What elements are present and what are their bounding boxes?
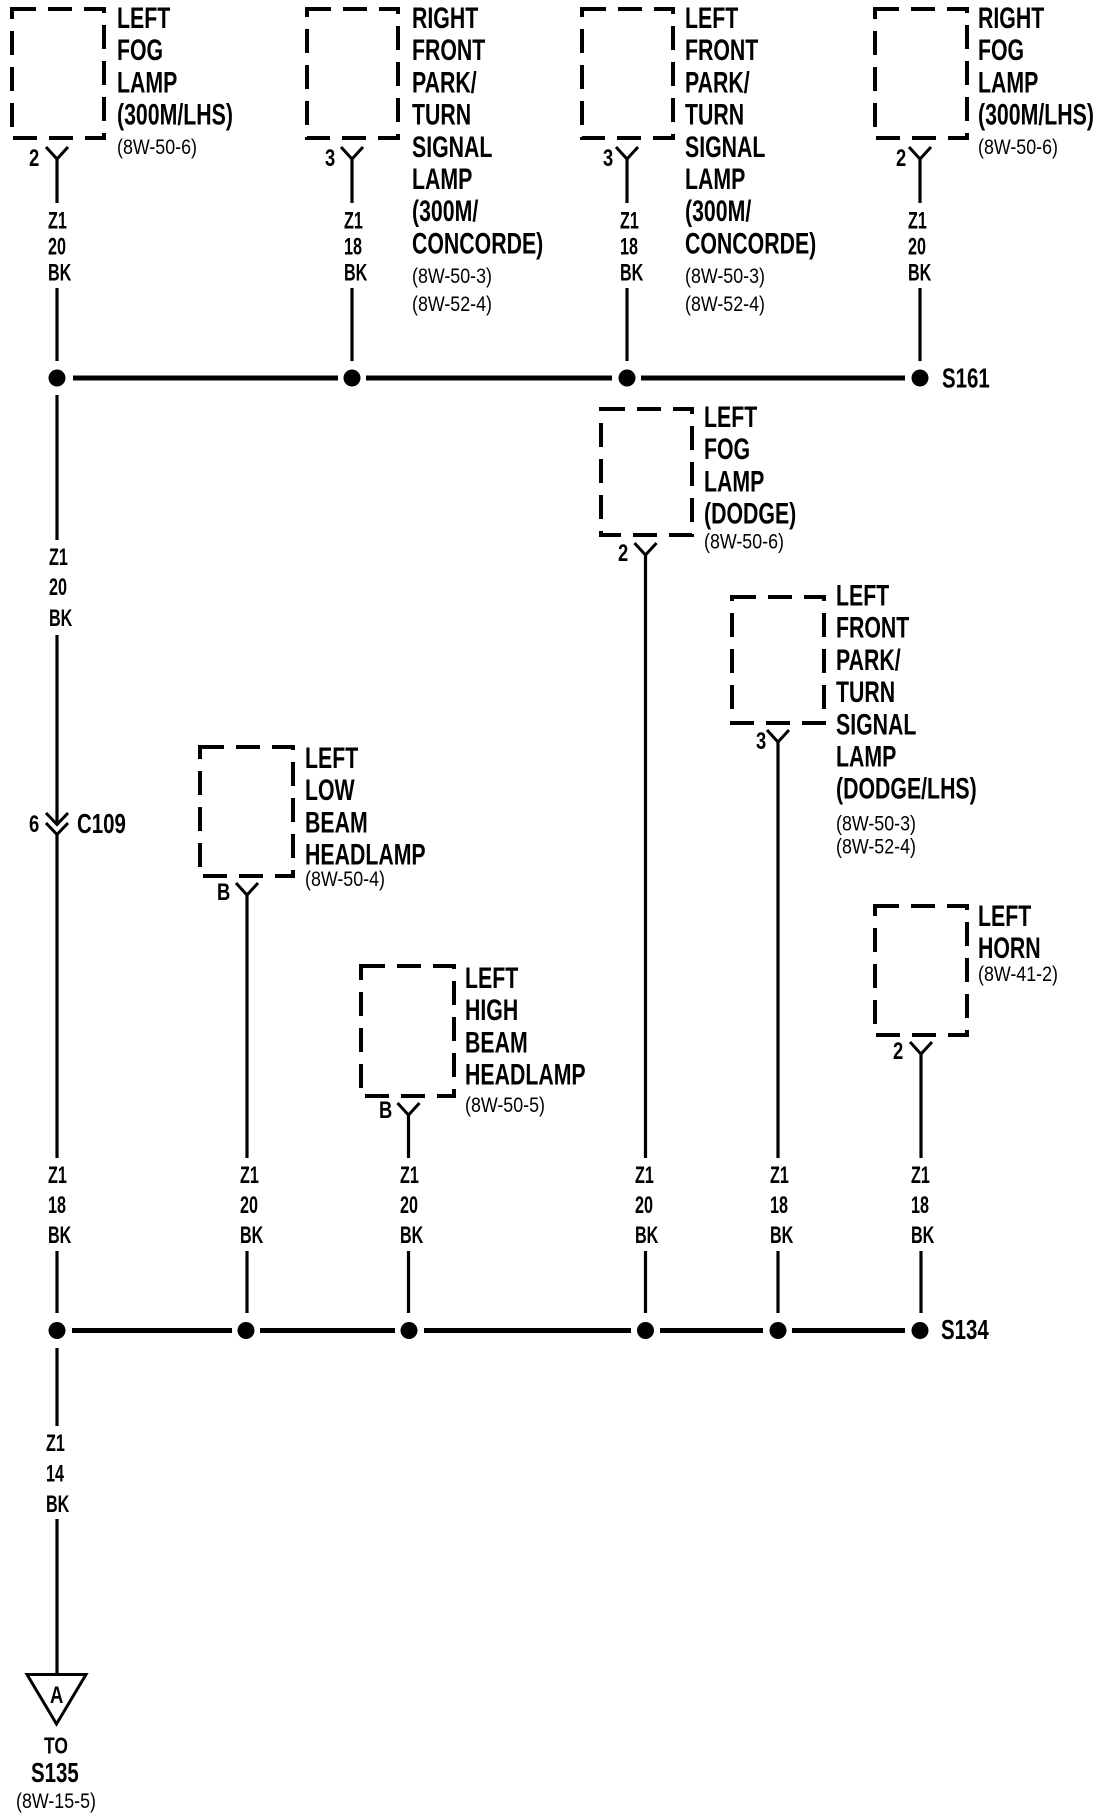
svg-text:BK: BK xyxy=(46,1491,69,1518)
svg-text:3: 3 xyxy=(325,143,335,171)
svg-text:(8W-52-4): (8W-52-4) xyxy=(836,835,916,859)
wire from S134 down xyxy=(55,1348,58,1426)
svg-text:(DODGE): (DODGE) xyxy=(704,496,796,531)
svg-text:BK: BK xyxy=(770,1222,793,1249)
svg-text:C109: C109 xyxy=(77,809,126,840)
svg-text:(8W-52-4): (8W-52-4) xyxy=(412,293,492,317)
svg-text:Z1: Z1 xyxy=(46,1430,65,1457)
svg-text:(300M/: (300M/ xyxy=(412,194,478,229)
svg-text:HEADLAMP: HEADLAMP xyxy=(465,1057,586,1092)
svg-text:20: 20 xyxy=(48,233,66,260)
svg-text:14: 14 xyxy=(46,1460,64,1487)
svg-text:B: B xyxy=(379,1095,392,1123)
junction at S134, high beam wire xyxy=(401,1322,418,1339)
svg-text:BK: BK xyxy=(400,1222,423,1249)
wire from left fog lamp (Dodge) xyxy=(644,555,647,1158)
svg-text:BK: BK xyxy=(908,259,931,286)
connector box: LEFT FOG LAMP (300M/LHS) xyxy=(12,9,104,138)
svg-text:18: 18 xyxy=(620,233,638,260)
junction at S161, wire 2 xyxy=(344,370,361,387)
svg-text:(8W-50-3): (8W-50-3) xyxy=(412,265,492,289)
wire to S161 xyxy=(55,288,58,361)
svg-text:18: 18 xyxy=(48,1192,66,1219)
svg-text:LEFT: LEFT xyxy=(978,898,1031,933)
wire from S161 down xyxy=(55,395,58,540)
svg-text:BK: BK xyxy=(344,259,367,286)
svg-text:3: 3 xyxy=(603,143,613,171)
wire to S161 xyxy=(625,288,628,361)
connector branch, left front park/turn lamp (300M) xyxy=(616,147,638,159)
svg-text:18: 18 xyxy=(344,233,362,260)
svg-text:Z1: Z1 xyxy=(908,207,927,234)
wire to S161 xyxy=(918,288,921,361)
svg-text:Z1: Z1 xyxy=(344,207,363,234)
svg-text:Z1: Z1 xyxy=(48,207,67,234)
svg-text:Z1: Z1 xyxy=(49,544,68,571)
junction at S134, low beam wire xyxy=(238,1322,255,1339)
connector branch, left fog lamp xyxy=(46,147,68,159)
junction at S161, wire 1 xyxy=(49,370,66,387)
svg-text:TO: TO xyxy=(44,1734,68,1759)
svg-text:Z1: Z1 xyxy=(770,1162,789,1189)
svg-text:(300M/: (300M/ xyxy=(685,194,751,229)
svg-text:A: A xyxy=(50,1680,64,1708)
svg-text:BK: BK xyxy=(911,1222,934,1249)
wire to S134 xyxy=(407,1251,410,1313)
svg-text:LOW: LOW xyxy=(305,773,355,808)
svg-text:TURN: TURN xyxy=(836,674,895,709)
connector box: LEFT HORN xyxy=(875,906,967,1035)
connector branch, right fog lamp xyxy=(909,147,931,159)
svg-text:LEFT: LEFT xyxy=(117,0,170,35)
svg-text:18: 18 xyxy=(770,1192,788,1219)
svg-text:(8W-41-2): (8W-41-2) xyxy=(978,963,1058,987)
svg-text:LAMP: LAMP xyxy=(704,464,764,499)
svg-text:LAMP: LAMP xyxy=(117,65,177,100)
svg-text:LEFT: LEFT xyxy=(685,0,738,35)
svg-text:RIGHT: RIGHT xyxy=(978,0,1044,35)
svg-text:20: 20 xyxy=(908,233,926,260)
wire to S134 xyxy=(644,1251,647,1313)
svg-text:2: 2 xyxy=(29,143,39,171)
svg-text:LAMP: LAMP xyxy=(836,739,896,774)
wire to S134 xyxy=(245,1251,248,1313)
wire from left low beam headlamp xyxy=(245,895,248,1158)
connector box: LEFT HIGH BEAM HEADLAMP xyxy=(361,966,454,1096)
svg-text:BK: BK xyxy=(48,1222,71,1249)
svg-text:BEAM: BEAM xyxy=(305,805,368,840)
svg-text:FRONT: FRONT xyxy=(836,610,909,645)
svg-text:RIGHT: RIGHT xyxy=(412,0,478,35)
svg-text:LEFT: LEFT xyxy=(465,960,518,995)
svg-text:20: 20 xyxy=(240,1192,258,1219)
svg-text:LEFT: LEFT xyxy=(305,740,358,775)
connector branch, left horn xyxy=(910,1042,932,1054)
svg-text:(8W-50-5): (8W-50-5) xyxy=(465,1094,545,1118)
svg-text:2: 2 xyxy=(893,1036,903,1064)
svg-text:PARK/: PARK/ xyxy=(836,642,901,677)
svg-text:HIGH: HIGH xyxy=(465,993,518,1028)
svg-text:S134: S134 xyxy=(941,1315,989,1346)
svg-text:(8W-52-4): (8W-52-4) xyxy=(685,293,765,317)
connector branch, right front park/turn lamp xyxy=(341,147,363,159)
svg-text:Z1: Z1 xyxy=(400,1162,419,1189)
bus segment S134 c xyxy=(424,1328,631,1333)
wire to S134 xyxy=(776,1251,779,1313)
svg-text:SIGNAL: SIGNAL xyxy=(685,129,766,164)
svg-text:SIGNAL: SIGNAL xyxy=(836,707,917,742)
svg-text:(300M/LHS): (300M/LHS) xyxy=(978,97,1094,132)
svg-text:3: 3 xyxy=(756,726,766,754)
svg-text:Z1: Z1 xyxy=(635,1162,654,1189)
svg-text:BK: BK xyxy=(49,605,72,632)
svg-text:FOG: FOG xyxy=(117,33,163,68)
connector box: RIGHT FOG LAMP (300M/LHS) xyxy=(875,9,967,138)
bus segment S134 d xyxy=(660,1328,763,1333)
junction at S161, wire 3 xyxy=(619,370,636,387)
svg-text:PARK/: PARK/ xyxy=(412,65,477,100)
wire from left front park/turn lamp (Dodge) xyxy=(776,742,779,1158)
connector C109 symbol xyxy=(46,813,68,825)
wire to S134 xyxy=(919,1251,922,1313)
connector branch, left front park/turn lamp (Dodge) xyxy=(767,730,789,742)
svg-text:BK: BK xyxy=(48,259,71,286)
svg-text:FRONT: FRONT xyxy=(685,33,758,68)
bus segment S161 a xyxy=(73,376,338,381)
svg-text:S135: S135 xyxy=(31,1758,79,1789)
svg-text:BK: BK xyxy=(620,259,643,286)
connector box: LEFT FRONT PARK/TURN SIGNAL LAMP (300M/CONCORDE) xyxy=(582,9,673,138)
wire from right fog lamp xyxy=(918,159,921,203)
bus segment S134 a xyxy=(72,1328,232,1333)
connector box: RIGHT FRONT PARK/TURN SIGNAL LAMP (300M/CONCORDE) xyxy=(307,9,398,138)
bus segment S161 c xyxy=(641,376,905,381)
wire from left front park/turn lamp (300M) xyxy=(625,159,628,203)
svg-text:Z1: Z1 xyxy=(620,207,639,234)
svg-text:Z1: Z1 xyxy=(911,1162,930,1189)
svg-text:SIGNAL: SIGNAL xyxy=(412,129,493,164)
svg-text:FRONT: FRONT xyxy=(412,33,485,68)
connector branch, left low beam headlamp xyxy=(236,883,258,895)
wire from left horn xyxy=(919,1054,922,1158)
wire from right front park/turn lamp xyxy=(350,159,353,203)
wire to off-page connector A xyxy=(55,1519,58,1675)
svg-text:TURN: TURN xyxy=(685,97,744,132)
svg-text:HEADLAMP: HEADLAMP xyxy=(305,837,426,872)
svg-text:Z1: Z1 xyxy=(240,1162,259,1189)
svg-text:(8W-50-6): (8W-50-6) xyxy=(978,136,1058,160)
svg-text:(8W-50-3): (8W-50-3) xyxy=(685,265,765,289)
wire from C109 down xyxy=(55,835,58,1158)
off-page connector A (triangle) xyxy=(27,1675,86,1725)
svg-text:BK: BK xyxy=(240,1222,263,1249)
svg-text:20: 20 xyxy=(635,1192,653,1219)
wire from left high beam headlamp xyxy=(407,1115,410,1158)
connector branch, left fog lamp (Dodge) xyxy=(635,543,657,555)
svg-text:LAMP: LAMP xyxy=(412,161,472,196)
wire to S134 xyxy=(55,1251,58,1313)
connector branch, left high beam headlamp xyxy=(398,1103,420,1115)
bus segment S134 e xyxy=(792,1328,905,1333)
svg-text:LEFT: LEFT xyxy=(704,399,757,434)
svg-text:LAMP: LAMP xyxy=(685,161,745,196)
svg-text:CONCORDE): CONCORDE) xyxy=(685,226,816,261)
connector box: LEFT FRONT PARK/TURN SIGNAL LAMP (DODGE/LHS) xyxy=(732,597,824,723)
splice S161 xyxy=(912,370,929,387)
svg-text:BK: BK xyxy=(635,1222,658,1249)
svg-text:S161: S161 xyxy=(942,364,990,395)
svg-text:6: 6 xyxy=(29,809,39,837)
svg-text:2: 2 xyxy=(618,538,628,566)
svg-text:BEAM: BEAM xyxy=(465,1025,528,1060)
svg-text:(300M/LHS): (300M/LHS) xyxy=(117,97,233,132)
svg-text:(8W-15-5): (8W-15-5) xyxy=(16,1790,96,1814)
junction at S134, park/turn (Dodge) wire xyxy=(770,1322,787,1339)
svg-text:(8W-50-6): (8W-50-6) xyxy=(117,136,197,160)
svg-text:(DODGE/LHS): (DODGE/LHS) xyxy=(836,771,977,806)
svg-text:LEFT: LEFT xyxy=(836,578,889,613)
connector box: LEFT LOW BEAM HEADLAMP xyxy=(200,747,293,876)
junction at S134, fog lamp (Dodge) wire xyxy=(637,1322,654,1339)
svg-text:FOG: FOG xyxy=(704,432,750,467)
svg-text:(8W-50-4): (8W-50-4) xyxy=(305,868,385,892)
wire from left fog lamp xyxy=(55,159,58,203)
svg-text:(8W-50-3): (8W-50-3) xyxy=(836,812,916,836)
svg-text:18: 18 xyxy=(911,1192,929,1219)
wire to S161 xyxy=(350,288,353,361)
junction at S134, wire 1 xyxy=(49,1322,66,1339)
splice S134 xyxy=(912,1322,929,1339)
bus segment S161 b xyxy=(366,376,612,381)
connector box: LEFT FOG LAMP (DODGE) xyxy=(601,409,692,535)
svg-text:2: 2 xyxy=(896,143,906,171)
bus segment S134 b xyxy=(260,1328,395,1333)
svg-text:20: 20 xyxy=(400,1192,418,1219)
svg-text:FOG: FOG xyxy=(978,33,1024,68)
svg-text:(8W-50-6): (8W-50-6) xyxy=(704,530,784,554)
svg-text:HORN: HORN xyxy=(978,931,1041,966)
svg-text:Z1: Z1 xyxy=(48,1162,67,1189)
wire to C109 xyxy=(55,635,58,824)
svg-text:B: B xyxy=(217,877,230,905)
svg-text:LAMP: LAMP xyxy=(978,65,1038,100)
svg-text:CONCORDE): CONCORDE) xyxy=(412,226,543,261)
svg-text:PARK/: PARK/ xyxy=(685,65,750,100)
svg-text:TURN: TURN xyxy=(412,97,471,132)
svg-text:20: 20 xyxy=(49,574,67,601)
